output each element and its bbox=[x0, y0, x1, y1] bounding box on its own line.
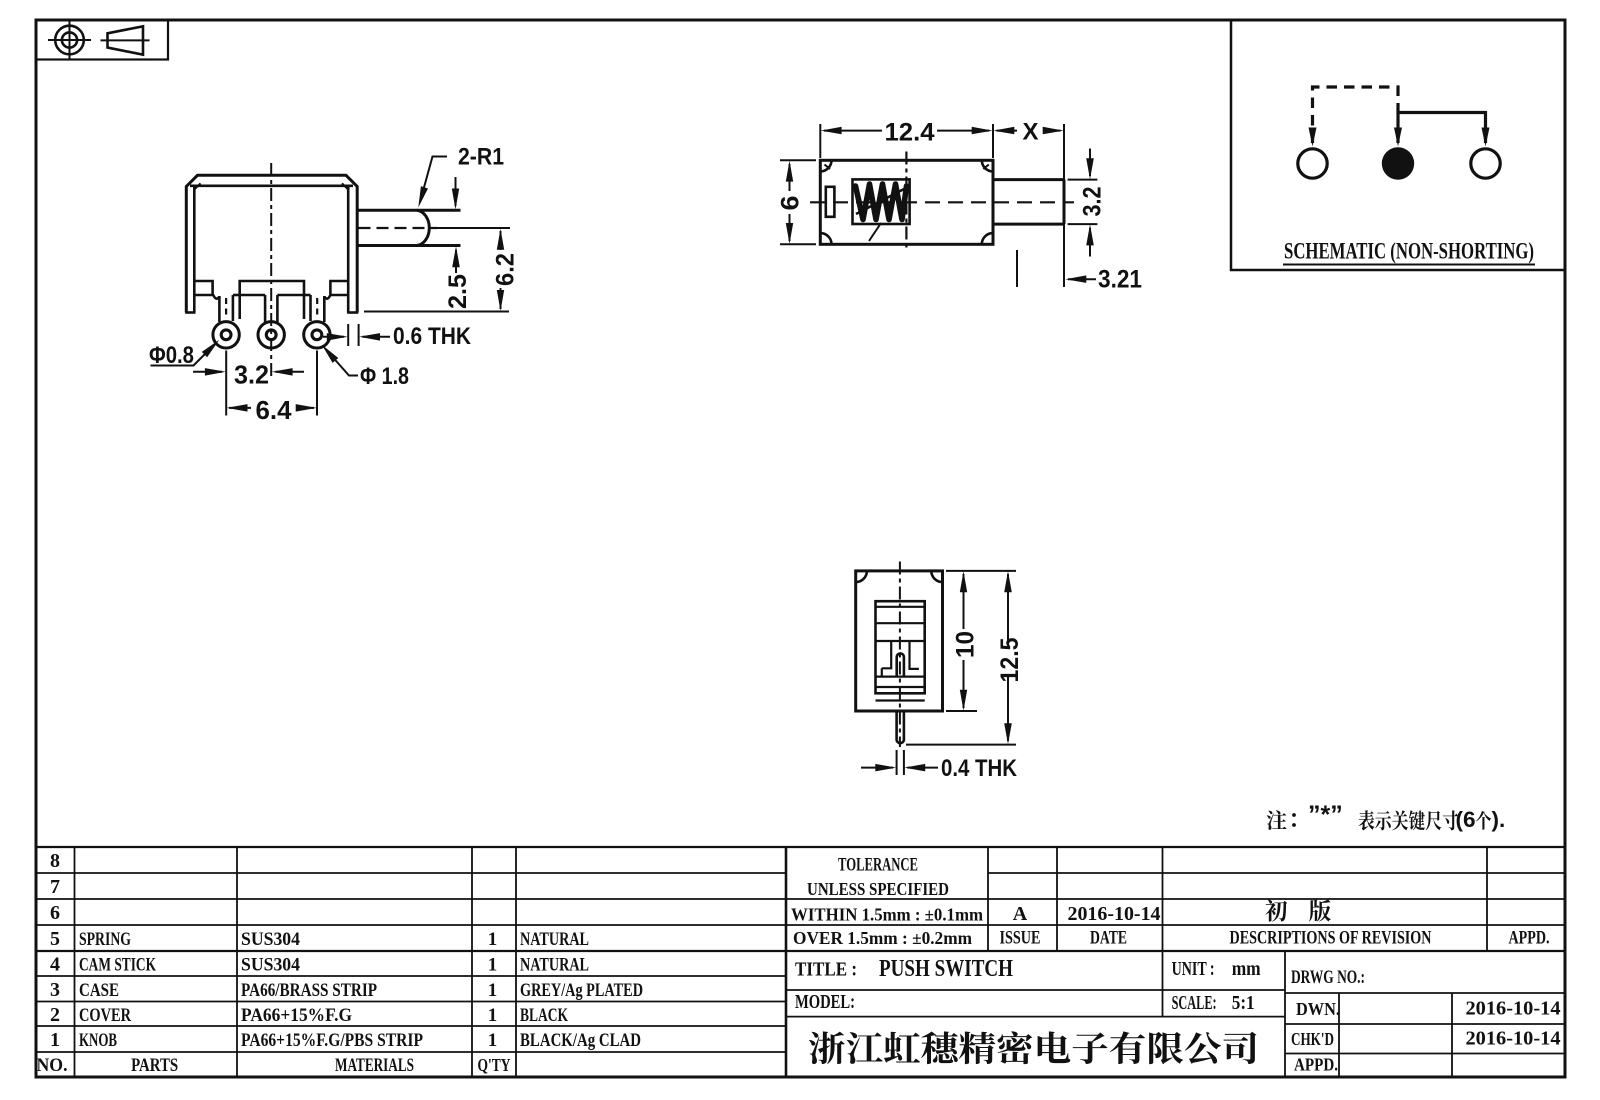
svg-text:1: 1 bbox=[488, 980, 498, 1001]
front view: top-right inner chamfer tick bbox=[342, 183, 348, 189]
phi1.8 leader bbox=[326, 349, 359, 376]
svg-text:DATE: DATE bbox=[1090, 928, 1127, 949]
bottom extension line at wall feet bbox=[364, 311, 509, 313]
top view: spring housing rect bbox=[853, 179, 910, 224]
12.5 bottom tick bbox=[906, 744, 1016, 746]
front view: vertical centerline (dashed) bbox=[270, 163, 272, 378]
0.6 THK left arrow bbox=[323, 336, 344, 338]
svg-text:OVER 1.5mm : ±0.2mm: OVER 1.5mm : ±0.2mm bbox=[793, 928, 972, 948]
svg-text:(6: (6 bbox=[1456, 807, 1476, 832]
side view: body outline bbox=[856, 571, 943, 711]
knob arm centerline dashed bbox=[359, 227, 438, 229]
svg-text:：: ： bbox=[1289, 809, 1309, 831]
svg-text:SPRING: SPRING bbox=[79, 929, 131, 950]
svg-text:12.5: 12.5 bbox=[996, 637, 1024, 682]
side view: inner lines bbox=[876, 606, 925, 608]
front view: left wall bottom cap bbox=[185, 311, 195, 314]
terminal 2 (middle) pin bbox=[264, 295, 267, 322]
schematic box bbox=[1231, 20, 1565, 270]
svg-text:WITHIN 1.5mm : ±0.1mm: WITHIN 1.5mm : ±0.1mm bbox=[791, 905, 983, 925]
front view: left wall inner edge bbox=[193, 186, 196, 313]
front view: right wall bottom cap bbox=[347, 311, 358, 314]
revision description: first edition (CJK) bbox=[1265, 900, 1287, 922]
projection symbol: side cone bbox=[108, 26, 144, 54]
front view: right wall inner edge bbox=[347, 186, 350, 313]
3.21 extension line (travel) bbox=[1016, 250, 1018, 287]
X / 3.21 extension line (plunger end) bbox=[1063, 124, 1065, 287]
svg-text:PA66/BRASS STRIP: PA66/BRASS STRIP bbox=[241, 980, 377, 1001]
spring tail line bbox=[869, 223, 881, 241]
svg-text:2-R1: 2-R1 bbox=[458, 144, 504, 171]
svg-text:SUS304: SUS304 bbox=[241, 929, 300, 950]
svg-text:2016-10-14: 2016-10-14 bbox=[1466, 998, 1561, 1020]
svg-text:6: 6 bbox=[777, 196, 805, 211]
svg-text:APPD.: APPD. bbox=[1509, 928, 1550, 949]
side view: inner stack rect bbox=[876, 601, 925, 693]
side view: corner ears bbox=[856, 571, 867, 582]
plunger end edge bbox=[1063, 180, 1066, 225]
svg-text:0.6 THK: 0.6 THK bbox=[393, 323, 472, 350]
front view: switch body outline bbox=[186, 175, 357, 312]
svg-text:12.4: 12.4 bbox=[885, 119, 935, 147]
svg-text:5: 5 bbox=[50, 928, 60, 950]
top view: corner ear arcs bbox=[820, 160, 831, 171]
10 dimension line bbox=[963, 574, 965, 629]
2.5 upper arrow bbox=[455, 177, 457, 206]
svg-text:2016-10-14: 2016-10-14 bbox=[1466, 1028, 1561, 1050]
svg-text:DESCRIPTIONS OF REVISION: DESCRIPTIONS OF REVISION bbox=[1230, 928, 1432, 949]
front view: bottom-left shelf bbox=[194, 281, 212, 295]
0.6 THK right arrow bbox=[363, 336, 391, 338]
front view: center block bbox=[240, 281, 304, 295]
svg-text:1: 1 bbox=[488, 929, 498, 950]
svg-text:4: 4 bbox=[50, 954, 60, 976]
svg-text:SCALE:: SCALE: bbox=[1172, 992, 1217, 1014]
svg-text:DRWG NO.:: DRWG NO.: bbox=[1291, 967, 1365, 988]
svg-text:1: 1 bbox=[488, 1030, 498, 1051]
terminal 2 hole bbox=[266, 330, 276, 340]
front view: body inner top line bbox=[190, 185, 353, 188]
svg-text:7: 7 bbox=[50, 876, 60, 898]
schematic: dashed actuation path bbox=[1313, 87, 1399, 143]
svg-text:CASE: CASE bbox=[79, 980, 119, 1001]
12.4 dimension line bbox=[824, 130, 882, 132]
6.4 extension line right bbox=[316, 351, 318, 416]
svg-text:SCHEMATIC (NON-SHORTING): SCHEMATIC (NON-SHORTING) bbox=[1284, 239, 1534, 264]
top view: corner tick TR bbox=[983, 165, 989, 170]
3.2 front: right arrow bbox=[276, 371, 305, 373]
6 dimension extension lines bbox=[780, 159, 816, 161]
6.4 dimension line bbox=[229, 407, 251, 409]
svg-text:KNOB: KNOB bbox=[79, 1030, 117, 1051]
svg-text:3: 3 bbox=[50, 979, 60, 1001]
svg-text:10: 10 bbox=[952, 631, 980, 658]
knob arm top edge bbox=[357, 209, 460, 212]
dimension 3.2 front: left arrow bbox=[193, 371, 222, 373]
svg-text:NATURAL: NATURAL bbox=[520, 955, 589, 976]
svg-text:3.21: 3.21 bbox=[1098, 266, 1142, 294]
6.2 dimension line bbox=[500, 231, 502, 250]
side view: vertical centerline bbox=[899, 562, 901, 748]
6.2 top extension (centerline solid extension) bbox=[437, 227, 510, 229]
svg-text:CHK'D: CHK'D bbox=[1291, 1029, 1334, 1049]
company name (CJK) bbox=[809, 1031, 845, 1064]
schematic: right contact circle bbox=[1471, 149, 1500, 178]
2.5 lower arrow bbox=[455, 250, 457, 273]
schematic: left contact circle bbox=[1298, 149, 1327, 178]
svg-text:1: 1 bbox=[488, 1005, 498, 1026]
12.5 dimension line bbox=[1007, 574, 1009, 643]
top view: plunger bottom edge bbox=[993, 223, 1064, 226]
3.2 front: extension line left bbox=[225, 351, 227, 416]
svg-text:2016-10-14: 2016-10-14 bbox=[1068, 903, 1161, 925]
svg-text:TITLE :: TITLE : bbox=[795, 959, 857, 981]
svg-text:3.2: 3.2 bbox=[1079, 187, 1107, 217]
0.4 THK ticks bbox=[896, 750, 898, 775]
side view: cam stick (center pin with round top) bbox=[897, 653, 904, 676]
terminal 3 hole bbox=[312, 330, 322, 340]
svg-text:mm: mm bbox=[1232, 958, 1261, 980]
terminal 1 ring bbox=[213, 322, 239, 348]
12.4 extension lines bbox=[819, 124, 821, 158]
svg-text:).: ). bbox=[1492, 807, 1506, 832]
svg-text:1: 1 bbox=[488, 955, 498, 976]
svg-text:CAM STICK: CAM STICK bbox=[79, 955, 156, 976]
top view: vertical centerline dashed bbox=[905, 152, 907, 250]
svg-text:BLACK/Ag CLAD: BLACK/Ag CLAD bbox=[520, 1030, 641, 1051]
note: key dimension remark bbox=[1267, 810, 1287, 830]
svg-text:MATERIALS: MATERIALS bbox=[335, 1055, 414, 1076]
projection symbol: front circle bbox=[55, 26, 84, 55]
knob arm bottom edge bbox=[357, 244, 460, 247]
terminal 1 (left) pin bbox=[218, 296, 221, 322]
top view: corner tick TL bbox=[825, 165, 831, 170]
title block: vertical lines bbox=[74, 847, 76, 1077]
svg-text:ISSUE: ISSUE bbox=[1000, 928, 1041, 949]
3.2 top view dimension bbox=[1089, 149, 1091, 177]
svg-text:1: 1 bbox=[50, 1029, 60, 1051]
10 dimension ticks bbox=[946, 570, 1016, 572]
svg-text:NO.: NO. bbox=[37, 1055, 68, 1076]
projection symbol box bbox=[36, 20, 168, 60]
X dimension bbox=[997, 130, 1018, 132]
svg-text:UNLESS SPECIFIED: UNLESS SPECIFIED bbox=[807, 879, 949, 899]
title block: horizontal lines bbox=[36, 846, 1565, 848]
svg-text:”*”: ”*” bbox=[1308, 801, 1343, 829]
phi0.8 leader bbox=[151, 345, 215, 366]
side view: terminal pin below bbox=[897, 711, 904, 743]
svg-text:A: A bbox=[1013, 903, 1028, 925]
svg-text:6: 6 bbox=[50, 902, 60, 924]
top view: left notch bbox=[826, 187, 835, 217]
svg-text:MODEL:: MODEL: bbox=[795, 991, 855, 1013]
svg-text:COVER: COVER bbox=[79, 1005, 131, 1026]
svg-text:5:1: 5:1 bbox=[1232, 992, 1255, 1014]
svg-text:PARTS: PARTS bbox=[131, 1055, 178, 1076]
svg-text:2: 2 bbox=[50, 1004, 60, 1026]
top view: body outline bbox=[820, 160, 993, 244]
svg-text:PUSH SWITCH: PUSH SWITCH bbox=[879, 956, 1013, 982]
top view: plunger top edge bbox=[993, 178, 1064, 181]
top view: horizontal centerline dashed bbox=[810, 201, 1074, 203]
terminal 3 ring bbox=[304, 322, 330, 348]
side view: cam step right bbox=[910, 641, 919, 669]
svg-text:0.4 THK: 0.4 THK bbox=[941, 755, 1018, 782]
svg-text:PA66+15%F.G/PBS STRIP: PA66+15%F.G/PBS STRIP bbox=[241, 1030, 423, 1051]
schematic: middle contact (common, filled) bbox=[1382, 147, 1414, 179]
terminal 2 ring bbox=[258, 322, 284, 348]
side view: cam step left bbox=[882, 641, 891, 668]
svg-text:Φ 1.8: Φ 1.8 bbox=[360, 363, 409, 390]
svg-text:2.5: 2.5 bbox=[444, 274, 472, 309]
front view: bottom-right shelf bbox=[330, 281, 348, 295]
svg-text:Q'TY: Q'TY bbox=[478, 1055, 511, 1075]
svg-text:SUS304: SUS304 bbox=[241, 955, 300, 976]
svg-text:GREY/Ag PLATED: GREY/Ag PLATED bbox=[520, 980, 643, 1001]
svg-text:6.4: 6.4 bbox=[256, 395, 293, 425]
svg-text:PA66+15%F.G: PA66+15%F.G bbox=[241, 1005, 352, 1026]
svg-text:3.2: 3.2 bbox=[234, 360, 269, 390]
schematic: solid link bbox=[1398, 113, 1486, 144]
svg-text:NATURAL: NATURAL bbox=[520, 929, 589, 950]
3.2 top view ticks bbox=[1068, 179, 1098, 181]
svg-text:UNIT :: UNIT : bbox=[1172, 958, 1215, 980]
front view: top-left inner chamfer tick bbox=[194, 183, 200, 189]
0.4 THK arrows bbox=[861, 767, 893, 769]
svg-text:8: 8 bbox=[50, 850, 60, 872]
0.6 THK extension ticks bbox=[347, 324, 349, 346]
terminal 1 hole bbox=[221, 330, 231, 340]
6 dimension line bbox=[789, 164, 791, 191]
svg-text:X: X bbox=[1022, 119, 1038, 146]
front view: case bottom edge segments with dips bbox=[194, 295, 219, 299]
svg-text:6.2: 6.2 bbox=[492, 253, 520, 286]
3.21 leader arrow bbox=[1068, 278, 1096, 280]
2-R1 leader bbox=[420, 157, 447, 203]
svg-text:BLACK: BLACK bbox=[520, 1005, 568, 1026]
terminal 3 (right) pin bbox=[309, 295, 312, 321]
svg-text:DWN.: DWN. bbox=[1296, 999, 1340, 1019]
svg-text:APPD.: APPD. bbox=[1294, 1055, 1338, 1075]
svg-text:TOLERANCE: TOLERANCE bbox=[838, 855, 918, 876]
knob arm rounded end (2-R1) bbox=[417, 210, 429, 245]
spring coil bbox=[856, 184, 907, 220]
